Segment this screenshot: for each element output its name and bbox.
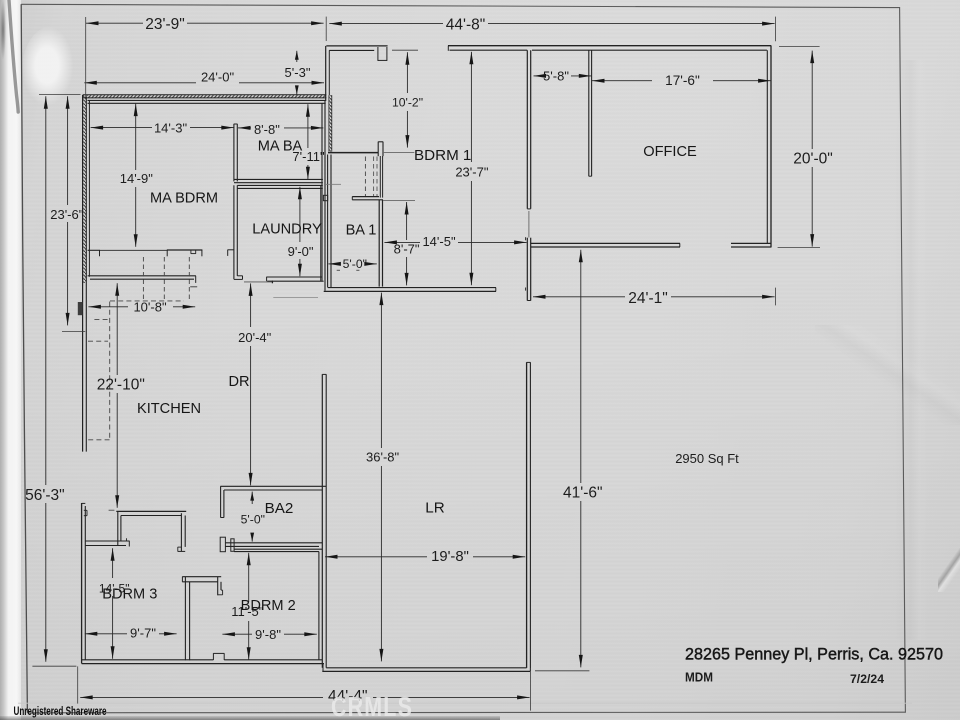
svg-text:10'-2": 10'-2" [392,96,423,110]
svg-text:23'-9": 23'-9" [145,16,184,33]
svg-text:14'-9": 14'-9" [120,171,154,186]
wall: hallway south of BDRM1 (24-1 wall west piece) [531,243,680,247]
dimension 20'-4" [238,283,272,485]
dark corner streak top-left [9,0,18,112]
svg-text:9'-7": 9'-7" [130,626,156,641]
svg-text:5'-3": 5'-3" [285,65,311,80]
dimension 9'-7" [85,626,177,641]
paper crease right-center [815,325,960,425]
dimension 5'-0" (BA1) [328,257,376,271]
svg-text:2950 Sq Ft: 2950 Sq Ft [675,451,739,466]
wall: spine west line (MA BA / laundry east) [322,101,325,291]
wall: office west (closet nook divider) [589,50,592,176]
wall: laundry west with south foot [234,185,243,279]
dimension 19'-8" [325,549,525,565]
svg-text:19'-8": 19'-8" [431,549,469,565]
opening line east of stair stub [383,151,414,153]
opening line south of BDRM1 (hall) [383,199,415,201]
hall faint line right of closet [273,297,318,299]
closet east leg + hook [218,577,223,596]
wall: BDRM2 north with bracket [231,539,322,552]
wall: exterior top hatched (above MA BDRM / MA BA) [83,95,326,98]
dimension 24'-1" [533,288,775,307]
svg-text:5'-0": 5'-0" [343,257,367,271]
svg-text:36'-8": 36'-8" [366,450,400,465]
dimension 8'-8" [238,122,323,137]
dimension 11'-5" [231,553,264,660]
wall: closet south (MA BDRM south) [88,276,196,283]
dimension 24'-0" [84,69,324,84]
svg-text:24'-1": 24'-1" [628,290,667,307]
dimension 7'-11" [292,104,325,179]
wall: kitchen/BDRM3 divider north [116,511,186,515]
dimension 23'-7" (BDRM1 height) [455,52,489,285]
wall: LR east [527,362,531,671]
svg-text:9'-8": 9'-8" [255,627,281,642]
BDRM3 closet front bar [182,577,221,582]
wall: spine hatched band upper [329,95,332,151]
closet east tick [228,250,234,256]
svg-text:14'-5": 14'-5" [422,234,456,249]
stair treads dashed [365,157,377,197]
stray piece below closet wall [190,286,197,288]
dimension 14'-9" [120,104,154,247]
svg-text:OFFICE: OFFICE [643,144,697,160]
svg-text:56'-3": 56'-3" [25,487,64,504]
svg-text:8'-8": 8'-8" [254,122,280,137]
BA1 fixture dashes [337,269,360,271]
wall: BDRM3 east upper [178,513,186,551]
closet rod dashed lines [110,257,189,301]
wall: laundry east / stairwell west [320,186,322,281]
dimension 56'-3" [25,96,76,666]
svg-text:LR: LR [425,500,444,517]
extension line left (x86) for 23-9/24-0 [85,17,87,94]
svg-text:22'-10": 22'-10" [97,377,145,394]
svg-text:14'-3": 14'-3" [154,121,188,136]
wall: BDRM3 entry west [118,511,121,545]
dimension 5'-3" (vertical, small) [285,51,311,95]
wall: exterior left hatched (MA BDRM west / kitchen west) [83,95,90,452]
wall: BDRM3 north-west piece [85,538,129,546]
paper crease right vertical [885,60,931,640]
top tick for 56-3 / 23-6 [39,94,81,96]
closet west bracket [88,250,100,256]
wall: spine east double (BA1 west) [328,155,331,288]
wall: BA2 north [220,486,326,490]
svg-text:7/2/24: 7/2/24 [850,672,884,686]
svg-text:20'-0": 20'-0" [793,151,832,168]
connector laundry NE to stairs [326,183,341,185]
wall: interior top double line (MA BDRM / MA BA north) [88,100,326,103]
svg-text:BA 1: BA 1 [346,223,377,239]
dimension 5'-8" [534,68,592,83]
dimension 44'-8" (top right width) [329,17,775,42]
svg-text:MA BA: MA BA [258,138,303,154]
svg-text:BDRM 2: BDRM 2 [241,598,296,614]
closet door foot notch at bottom wall [213,653,224,660]
svg-text:9'-0": 9'-0" [288,244,314,259]
dimension 20'-0" [778,46,833,247]
door notch on top wall at x380 [378,47,387,61]
wall: laundry north [237,185,322,188]
svg-text:LAUNDRY: LAUNDRY [252,222,322,238]
dimension 14'-5" (hall) [384,234,526,249]
dimension 9'-0" (laundry) [288,187,314,276]
svg-text:MDM: MDM [685,670,713,685]
wall: BDRM1 east lower piece [526,237,531,300]
dimension 44'-4" [78,666,531,710]
dimension 5'-0" (BA2) [241,492,265,542]
svg-text:20'-4": 20'-4" [238,330,272,345]
curled corner highlight top-left [21,26,79,120]
wall: south exterior (LR section, stepped lower) [322,664,530,672]
window marker on kitchen west wall [78,302,83,315]
dimension 23'-6" [50,96,85,331]
dimension 10'-8" [88,300,195,315]
svg-text:Unregistered Shareware: Unregistered Shareware [14,704,107,718]
hall opening line south of DR entry [244,281,273,284]
wall: hall south (below BA1/BDRM1) [324,288,496,292]
wall: MA BA south [234,179,323,182]
dimension 8'-7" [394,202,420,285]
wall: closet divider (BDRM3/BDRM2) [185,577,189,661]
svg-text:CRMLS: CRMLS [331,693,413,720]
svg-text:DR: DR [228,374,249,390]
wall: BA1 north [352,197,383,200]
wall: BA1 east [379,200,382,287]
door stop bump on BA1 west wall [323,195,327,200]
dimension 14'-5" (BDRM3) [99,548,130,659]
svg-text:BDRM 3: BDRM 3 [102,587,157,603]
svg-text:BA2: BA2 [265,500,294,517]
wall: laundry south [266,277,323,281]
svg-text:8'-7": 8'-7" [394,242,420,257]
svg-text:44'-8": 44'-8" [446,17,485,34]
svg-text:5'-0": 5'-0" [241,512,265,526]
BDRM1 door opening header line [528,211,530,238]
paper bottom edge faint line [18,702,912,704]
dimension 10'-2" [392,50,423,147]
svg-text:10'-8": 10'-8" [133,300,167,315]
wall: office south piece [731,243,771,247]
svg-text:24'-0": 24'-0" [201,69,235,84]
dimension 17'-6" [592,73,771,88]
svg-text:BDRM 1: BDRM 1 [414,147,471,164]
wall: kitchen west lower piece [82,503,86,664]
wall: south exterior (BDRM3/BDRM2 section) [82,660,324,664]
paper fold nick right edge [938,548,960,592]
kitchen dashed counter lines [88,302,110,440]
wall: top exterior segment B (BDRM1 + office) [448,46,771,51]
scan left edge band [0,0,21,720]
wall: BA2 west [221,486,224,517]
wall: BDRM2 east [318,552,320,660]
closet center post [167,250,203,256]
wall: BA2 south with west bracket [220,537,322,552]
svg-text:KITCHEN: KITCHEN [137,401,201,417]
wall: LR west spine [322,374,326,668]
wall: office east exterior [767,46,771,248]
page border frame left (wavy scan edge) [21,4,27,713]
dimension 36'-8" [366,293,400,662]
svg-text:23'-7": 23'-7" [455,164,489,179]
svg-text:23'-6": 23'-6" [50,207,84,222]
svg-text:17'-6": 17'-6" [665,73,700,88]
svg-text:MA BDRM: MA BDRM [150,191,218,207]
closet bifold front line [100,249,167,251]
svg-text:28265 Penney Pl, Perris, Ca. 9: 28265 Penney Pl, Perris, Ca. 92570 [685,644,943,663]
dimension 23'-9" (top left width) [86,16,326,41]
dimension 41'-6" [535,250,603,671]
dimension 22'-10" [97,283,145,510]
bottom scan shadow [0,716,500,720]
bump on kitchen west wall [84,510,87,515]
wall: stair east rail [380,156,382,198]
dimension 9'-8" [222,627,316,642]
svg-text:41'-6": 41'-6" [563,485,602,502]
wall: top exterior segment A (MA BA closet area) [326,46,388,101]
wall: stair top [328,142,383,157]
wall: BDRM1 / office divider [527,50,530,209]
svg-text:5'-8": 5'-8" [543,68,569,83]
dimension 14'-3" [91,121,234,136]
wall: MA BA west [234,124,237,182]
